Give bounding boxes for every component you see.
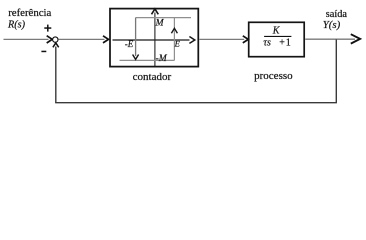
- hysteresis loop top line (y = M): [136, 17, 191, 19]
- svg-text:referência: referência: [8, 7, 51, 19]
- hysteresis loop bottom line (y = -M): [120, 59, 175, 61]
- svg-text:M: M: [155, 18, 165, 28]
- svg-text:contador: contador: [133, 71, 172, 83]
- svg-text:-E: -E: [125, 39, 134, 49]
- hysteresis loop right vertical (x = E) with up arrow: [171, 18, 177, 61]
- wire: feedback riser into summing junction: [53, 43, 59, 103]
- svg-text:R(s): R(s): [7, 20, 26, 31]
- plus sign at summing junction: [44, 25, 51, 32]
- hysteresis horizontal axis: [113, 37, 195, 44]
- svg-text:processo: processo: [254, 70, 293, 82]
- svg-text:Y(s): Y(s): [323, 19, 341, 31]
- hysteresis loop left vertical (x = -E) with down arrow: [133, 18, 139, 60]
- wire: summing junction to contador block: [58, 36, 108, 43]
- wire: processo to output: [305, 34, 360, 43]
- svg-text:K: K: [272, 25, 281, 36]
- wire: feedback bottom run: [55, 102, 337, 104]
- wire: contador to processo: [199, 36, 248, 43]
- hysteresis vertical axis: [152, 9, 159, 66]
- block: contador box: [110, 9, 198, 67]
- svg-text:τs: τs: [263, 38, 271, 49]
- minus sign at summing junction: [41, 51, 46, 53]
- fraction bar: [264, 35, 291, 37]
- svg-text:E: E: [174, 38, 181, 48]
- label tau s + 1 (denominator): [263, 38, 290, 49]
- wire: reference input into summing junction: [4, 36, 53, 43]
- wire: feedback drop from output: [335, 39, 337, 102]
- svg-text:+: +: [279, 38, 285, 49]
- svg-text:-M: -M: [156, 54, 168, 64]
- svg-text:1: 1: [286, 38, 291, 49]
- summing junction: [53, 37, 58, 42]
- block: processo box: [249, 22, 305, 56]
